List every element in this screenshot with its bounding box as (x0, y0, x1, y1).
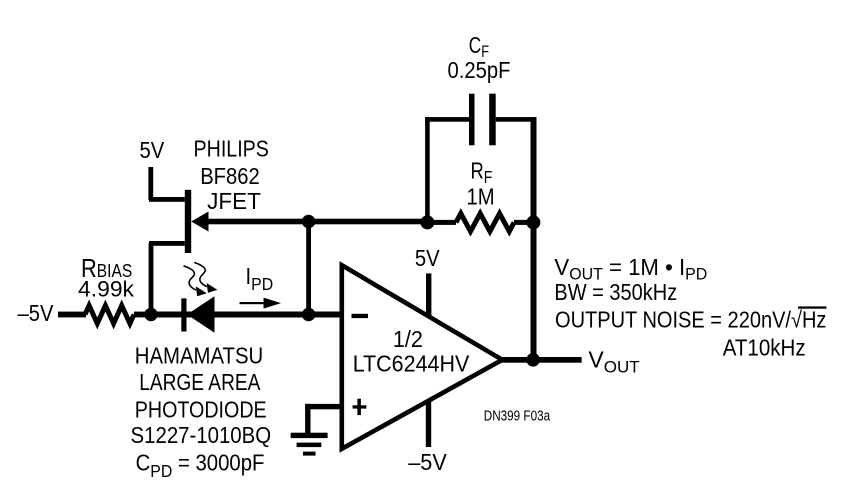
svg-text:–5V: –5V (408, 449, 447, 475)
svg-text:BF862: BF862 (200, 163, 260, 190)
svg-text:S1227-1010BQ: S1227-1010BQ (131, 422, 272, 448)
photodiode D1 triangle (187, 296, 215, 333)
svg-text:0.25pF: 0.25pF (447, 57, 510, 84)
feedback node right dot (526, 215, 540, 229)
wire cap right horizontal (496, 117, 536, 122)
svg-text:BW = 350kHz: BW = 350kHz (554, 278, 677, 305)
svg-text:1M: 1M (466, 183, 494, 210)
svg-text:PHOTODIODE: PHOTODIODE (135, 397, 267, 423)
capacitor CF (469, 94, 496, 146)
op-amp U1 (342, 265, 503, 449)
node B junction dot on gate line (302, 215, 316, 229)
wire JFET source vertical (149, 243, 154, 316)
photodiode D1 cathode bar (181, 298, 186, 331)
svg-text:–5V: –5V (18, 300, 54, 327)
svg-text:LARGE AREA: LARGE AREA (139, 370, 261, 395)
svg-text:AT10kHz: AT10kHz (723, 335, 806, 361)
feedback node left dot (420, 215, 434, 229)
wire node B down to summing node (306, 222, 311, 315)
light arrow 2 (194, 262, 217, 292)
svg-text:5V: 5V (140, 137, 165, 164)
wire feedback left vertical (425, 117, 430, 222)
wire op-amp V+ supply (426, 273, 431, 316)
wire -5V to RBIAS (58, 312, 86, 318)
resistor RF (456, 213, 514, 231)
current arrow IPD (240, 298, 282, 309)
wire photodiode to op-amp input (151, 312, 344, 318)
wire RF right to node (514, 220, 533, 225)
summing node junction dot (302, 308, 316, 322)
light arrow 1 (184, 266, 207, 296)
svg-text:HAMAMATSU: HAMAMATSU (135, 342, 263, 368)
wire RBIAS to node A (134, 312, 154, 318)
wire cap left horizontal (425, 117, 470, 122)
wire feedback right vertical (531, 117, 537, 362)
wire node to RF left (429, 220, 456, 225)
svg-text:DN399 F03a: DN399 F03a (484, 407, 551, 424)
svg-text:PHILIPS: PHILIPS (194, 136, 269, 162)
svg-text:5V: 5V (415, 245, 440, 272)
resistor RBIAS (85, 306, 134, 324)
wire op-amp V- supply (426, 400, 431, 448)
output node junction dot (526, 353, 540, 367)
wire gate line to feedback node (203, 219, 427, 225)
ground symbol (291, 433, 328, 456)
wire op-amp output (500, 357, 582, 363)
svg-text:OUTPUT NOISE = 220nV/√Hz: OUTPUT NOISE = 220nV/√Hz (555, 306, 826, 333)
op-amp plus input symbol (353, 399, 367, 415)
node A junction dot (144, 308, 157, 321)
wire 5V to JFET drain (148, 167, 153, 200)
svg-text:1/2: 1/2 (393, 327, 423, 353)
overline of sqrt Hz (798, 306, 826, 308)
svg-text:LTC6244HV: LTC6244HV (353, 351, 470, 377)
op-amp minus input symbol (352, 314, 369, 318)
transistor Q1 JFET BF862 (149, 190, 209, 253)
svg-text:4.99k: 4.99k (78, 277, 135, 302)
svg-text:JFET: JFET (207, 188, 261, 214)
wire ground vertical (305, 404, 310, 436)
wire plus input to ground (305, 404, 343, 409)
